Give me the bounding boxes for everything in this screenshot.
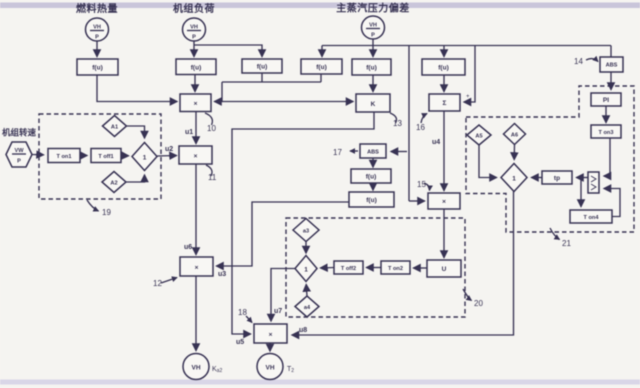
svg-text:PI: PI [603,97,609,104]
svg-text:11: 11 [208,173,217,182]
svg-text:17: 17 [333,148,342,157]
svg-text:A1: A1 [111,125,118,131]
svg-text:f(u): f(u) [92,65,102,72]
svg-text:15: 15 [417,180,426,189]
svg-text:19: 19 [102,208,111,217]
svg-text:VW: VW [14,148,24,154]
svg-text:u7: u7 [274,308,282,315]
svg-text:T on1: T on1 [57,154,72,160]
svg-text:T on2: T on2 [388,266,403,272]
svg-text:×: × [269,332,273,339]
svg-text:机组负荷: 机组负荷 [173,2,215,15]
svg-text:1: 1 [304,267,308,274]
svg-text:P: P [95,35,99,41]
svg-text:主蒸汽压力偏差: 主蒸汽压力偏差 [336,2,410,15]
svg-text:T on4: T on4 [584,215,600,221]
svg-text:f(u): f(u) [438,65,448,72]
svg-text:A2: A2 [110,181,117,187]
svg-text:f(u): f(u) [257,64,267,71]
svg-text:f(u): f(u) [366,174,376,181]
svg-text:a4: a4 [304,305,311,311]
svg-text:P: P [17,159,21,165]
svg-text:K: K [371,101,376,108]
svg-text:燃料热量: 燃料热量 [76,2,118,15]
svg-text:18: 18 [238,308,247,317]
svg-text:u4: u4 [432,139,440,146]
svg-text:14: 14 [574,57,583,66]
svg-text:VH: VH [191,365,200,372]
svg-text:×: × [194,101,198,108]
svg-text:u5: u5 [236,339,244,346]
svg-text:P: P [371,33,375,39]
svg-text:VH: VH [369,23,377,29]
svg-text:a3: a3 [303,229,309,235]
svg-text:T off1: T off1 [98,154,113,160]
svg-text:×: × [194,153,198,160]
svg-text:×: × [195,265,199,272]
svg-text:13: 13 [393,119,402,128]
svg-text:u1: u1 [185,129,193,136]
svg-text:10: 10 [207,124,216,133]
svg-text:f(u): f(u) [366,65,376,72]
svg-text:A6: A6 [511,133,518,139]
svg-text:机组转速: 机组转速 [2,128,37,138]
svg-text:P: P [192,35,196,41]
svg-text:T off2: T off2 [341,266,356,272]
svg-text:ABS: ABS [367,150,379,156]
svg-text:T2: T2 [287,366,294,374]
svg-text:16: 16 [416,123,425,132]
svg-text:tp: tp [554,175,560,182]
svg-text:VH: VH [190,25,198,31]
svg-text:f(u): f(u) [191,65,201,72]
svg-text:T on3: T on3 [599,130,614,136]
svg-text:A5: A5 [475,134,482,140]
svg-text:Ka2: Ka2 [212,366,222,374]
svg-text:u6: u6 [184,244,192,251]
svg-text:12: 12 [153,279,162,288]
svg-text:Σ: Σ [443,100,447,107]
svg-text:u3: u3 [218,271,226,278]
svg-text:+: + [466,94,470,100]
svg-text:f(u): f(u) [316,64,326,71]
svg-text:21: 21 [562,239,571,248]
svg-text:U: U [442,266,447,273]
svg-text:VH: VH [265,365,274,372]
svg-text:u2: u2 [165,146,173,153]
svg-text:1: 1 [512,176,516,183]
svg-text:f(u): f(u) [366,197,376,204]
svg-text:u8: u8 [299,327,307,334]
svg-text:VH: VH [93,25,101,31]
svg-text:20: 20 [474,299,483,308]
svg-text:×: × [442,199,446,206]
svg-text:1: 1 [143,155,147,162]
svg-text:ABS: ABS [606,63,618,69]
